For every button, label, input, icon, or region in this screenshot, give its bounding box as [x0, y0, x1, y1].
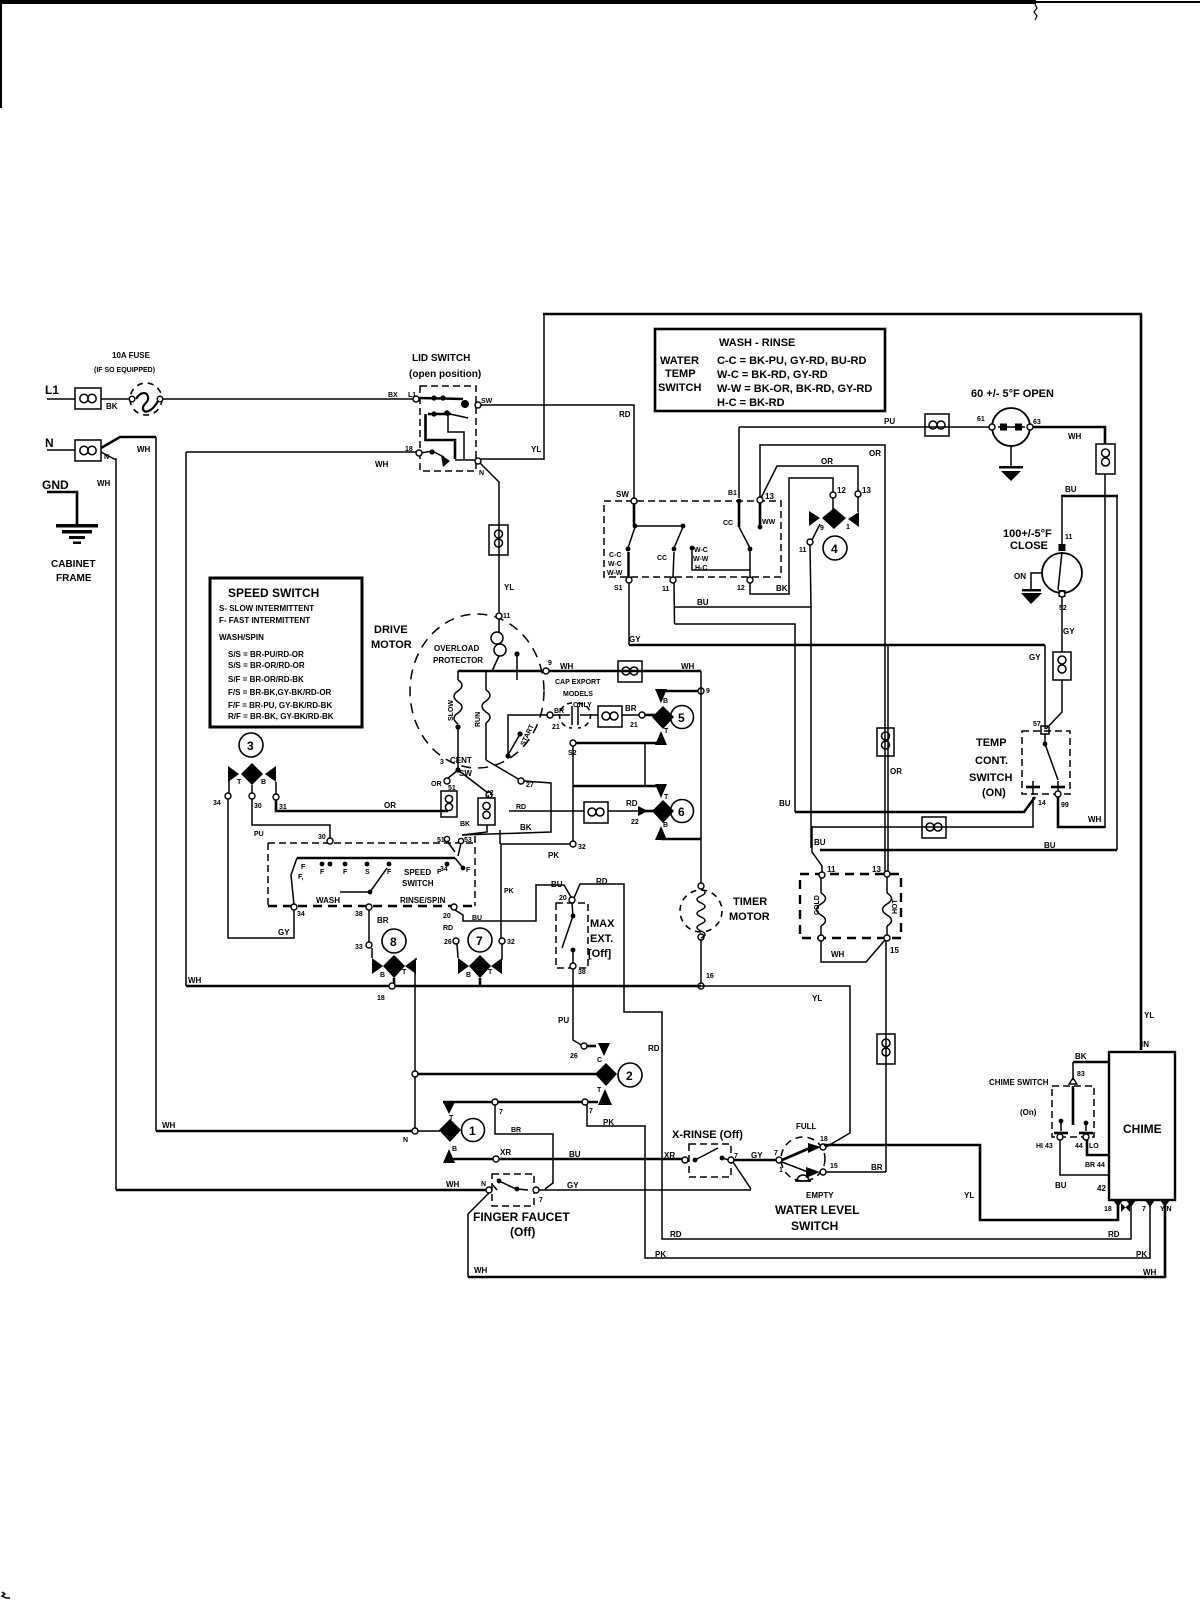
x-rinse dashed box	[689, 1144, 731, 1177]
svg-text:11: 11	[503, 613, 511, 620]
circled 5	[671, 706, 694, 729]
wire GY y1190	[539, 1189, 751, 1191]
connector vertical GY	[1053, 652, 1071, 680]
chime switch dashed box	[1052, 1086, 1094, 1137]
svg-text:TEMP: TEMP	[665, 368, 696, 380]
motor SLOW winding	[448, 671, 462, 730]
svg-text:GND: GND	[42, 478, 69, 492]
wire WH bus motor thick	[458, 670, 701, 673]
svg-text:LID SWITCH: LID SWITCH	[412, 353, 470, 364]
speed switch dashed box	[268, 836, 475, 906]
svg-text:EXT.: EXT.	[590, 933, 613, 945]
svg-text:(Off): (Off)	[510, 1225, 535, 1239]
svg-text:N: N	[45, 436, 54, 450]
wire thick to arrow	[587, 1045, 596, 1048]
finger faucet contacts	[492, 1179, 528, 1192]
wire OR2 13 diag to diamond13	[761, 466, 858, 498]
terminal WV bottom left	[818, 935, 824, 941]
wire top border	[543, 313, 1142, 316]
svg-text:OR: OR	[384, 801, 396, 810]
svg-text:GY: GY	[567, 1181, 579, 1190]
svg-text:30: 30	[318, 834, 326, 841]
circled 4	[823, 536, 847, 560]
thermostat 100F circle	[1042, 544, 1082, 597]
svg-text:61: 61	[977, 416, 985, 423]
svg-text:ON: ON	[1014, 572, 1026, 581]
connector vertical OR x885	[877, 728, 894, 756]
svg-text:RD: RD	[619, 410, 631, 419]
wire XR thick	[446, 1158, 685, 1161]
svg-text:GY: GY	[1063, 627, 1075, 636]
svg-text:SWITCH: SWITCH	[658, 382, 701, 394]
wire BR from 7 left	[495, 1105, 553, 1189]
terminal 30 speed switch	[327, 838, 333, 844]
connector vertical cent-12	[462, 795, 495, 835]
svg-text:T: T	[597, 1087, 602, 1094]
terminal 26	[453, 938, 459, 944]
svg-text:CAP EXPORT: CAP EXPORT	[555, 679, 601, 686]
svg-text:C: C	[597, 1057, 602, 1064]
contact blade left (34)	[291, 858, 297, 905]
svg-text:38: 38	[578, 969, 586, 976]
svg-text:7: 7	[774, 1150, 778, 1157]
svg-text:S/F = BR-OR/RD-BK: S/F = BR-OR/RD-BK	[228, 675, 304, 684]
terminal 18 bus	[389, 983, 395, 989]
svg-text:OVERLOAD: OVERLOAD	[434, 644, 480, 653]
wire WH WV loop	[821, 940, 885, 962]
wire N lead	[47, 449, 75, 451]
svg-text:34: 34	[440, 866, 448, 873]
svg-text:12: 12	[837, 486, 846, 495]
svg-text:27: 27	[526, 782, 534, 789]
wire GY bus thick	[629, 644, 1045, 647]
labels C-C W-C W-W stack left	[607, 552, 623, 577]
svg-text:51: 51	[437, 837, 445, 844]
svg-text:B: B	[380, 972, 385, 979]
timer motor dashed circle	[680, 883, 722, 940]
terminal 38 speed sw	[366, 904, 372, 910]
svg-text:WH: WH	[1068, 432, 1082, 441]
svg-text:COLD: COLD	[814, 895, 821, 915]
svg-text:HOT: HOT	[892, 899, 899, 915]
wire RD from cent down	[508, 810, 510, 812]
svg-text:WH: WH	[97, 479, 111, 488]
svg-text:H-C = BK-RD: H-C = BK-RD	[717, 397, 785, 409]
svg-text:13: 13	[765, 492, 774, 501]
svg-text:W-W = BK-OR, BK-RD, GY-RD: W-W = BK-OR, BK-RD, GY-RD	[717, 383, 872, 395]
wire thick y786	[573, 785, 657, 788]
circled 1	[462, 1119, 485, 1142]
contact arm	[1043, 734, 1058, 780]
svg-text:32: 32	[507, 939, 515, 946]
svg-text:XR: XR	[500, 1148, 511, 1157]
wire to diamond 5	[645, 714, 657, 717]
svg-text:BU: BU	[472, 915, 482, 922]
svg-text:3: 3	[247, 739, 254, 753]
svg-text:26: 26	[570, 1053, 578, 1060]
wire SW to RD corner	[481, 405, 634, 498]
svg-text:7: 7	[589, 1108, 593, 1115]
terminal BR diamond5	[639, 712, 645, 718]
label 24 bowtie	[1121, 1203, 1130, 1212]
svg-text:PU: PU	[254, 831, 264, 838]
svg-text:30: 30	[254, 803, 262, 810]
circled 2	[618, 1063, 642, 1087]
wire YL from lid switch N down	[480, 463, 499, 612]
svg-text:PK: PK	[504, 888, 514, 895]
svg-text:F- FAST INTERMITTENT: F- FAST INTERMITTENT	[219, 616, 310, 625]
connector inline WH cap	[618, 661, 642, 682]
wire bottom of 6 to x701	[661, 838, 701, 841]
svg-text:4: 4	[831, 542, 838, 556]
svg-text:WH: WH	[474, 1266, 488, 1275]
svg-text:7: 7	[539, 1197, 543, 1204]
svg-text:SPEED SWITCH: SPEED SWITCH	[228, 586, 319, 600]
svg-text:RINSE/SPIN: RINSE/SPIN	[400, 896, 446, 905]
terminal SW lid switch	[475, 402, 481, 408]
labels W-C W-W H-C mid stack	[690, 546, 750, 572]
svg-text:CENT: CENT	[450, 756, 472, 765]
svg-text:BX: BX	[388, 392, 398, 399]
overload protector dashed ellipse	[410, 614, 544, 768]
svg-text:LO: LO	[1089, 1143, 1099, 1150]
svg-text:CONT.: CONT.	[975, 755, 1008, 767]
svg-text:MODELS: MODELS	[563, 691, 593, 698]
terminal 11 WV	[819, 872, 825, 878]
svg-text:BU: BU	[1065, 485, 1077, 494]
svg-text:GY: GY	[1029, 653, 1041, 662]
svg-text:1: 1	[779, 1167, 783, 1174]
svg-text:9: 9	[548, 660, 552, 667]
svg-text:FRAME: FRAME	[56, 573, 92, 584]
finger faucet dashed box	[492, 1174, 534, 1206]
wire GND lead	[47, 492, 77, 524]
svg-text:OR: OR	[431, 781, 442, 788]
motor START winding	[505, 651, 536, 758]
svg-text:18: 18	[377, 995, 385, 1002]
wire BU/RD top loop	[535, 884, 537, 886]
water level contacts	[782, 1143, 821, 1178]
svg-text:1: 1	[846, 524, 850, 531]
terminal L1 lid switch	[413, 396, 419, 402]
page top edge bar	[0, 0, 1036, 4]
coil COLD	[814, 878, 826, 935]
terminal 13 water temp	[757, 497, 763, 503]
wire N to diamond1	[418, 1130, 444, 1132]
svg-text:BK: BK	[460, 821, 470, 828]
wire OR loop 13 up over to x885	[760, 445, 885, 874]
wire border drop to lid switch N	[481, 314, 544, 459]
terminal 9	[698, 688, 704, 694]
water valve dashed box	[800, 874, 901, 938]
wire PU from 30	[252, 799, 330, 838]
terminal 18 WL	[820, 1144, 826, 1150]
svg-text:SWITCH: SWITCH	[402, 879, 434, 888]
svg-text:N: N	[481, 1181, 486, 1188]
wire BU thick y812	[795, 797, 1035, 812]
svg-text:21: 21	[552, 724, 560, 731]
svg-text:T: T	[402, 969, 407, 976]
terminal 34 speed sw	[291, 904, 297, 910]
svg-text:WH: WH	[446, 1180, 460, 1189]
wire BU drop to thermostat 100F	[1061, 496, 1063, 547]
arrow up from S2 line	[655, 731, 667, 745]
wire S1 stub	[627, 552, 629, 577]
svg-text:WH: WH	[1088, 815, 1102, 824]
terminal LO	[1083, 1134, 1089, 1140]
contact blade wash	[340, 868, 387, 894]
svg-text:38: 38	[355, 911, 363, 918]
wire BU thick y850	[820, 849, 1117, 852]
connector vertical WH right	[1096, 444, 1115, 474]
svg-text:XR: XR	[664, 1151, 675, 1160]
wire RD bottom	[662, 1203, 1131, 1239]
terminal N finger faucet	[486, 1187, 492, 1193]
svg-text:RD: RD	[648, 1044, 660, 1053]
wire diamond8 T down	[414, 960, 416, 1131]
temp cont switch dashed box	[1022, 731, 1070, 794]
arrow up from XR line	[443, 1149, 455, 1163]
svg-text:34: 34	[297, 911, 305, 918]
connector vertical YL	[489, 525, 508, 555]
page bottom-left mark	[2, 1592, 10, 1598]
junction x415 y1074	[412, 1071, 418, 1077]
wire x701 vertical (9 to timer)	[700, 671, 702, 886]
svg-text:WATER LEVEL: WATER LEVEL	[775, 1203, 859, 1217]
svg-text:YL: YL	[504, 583, 514, 592]
terminal 34	[225, 793, 231, 799]
svg-text:L1: L1	[45, 383, 59, 397]
svg-text:99: 99	[1061, 802, 1069, 809]
chime switch contact bar	[1054, 1086, 1093, 1133]
wire N box to vertical riser	[101, 437, 156, 448]
wire timer to bus	[700, 940, 702, 986]
diamond 3 with arrows	[228, 763, 276, 795]
wire BR from 15	[826, 1171, 886, 1173]
terminal 11 water temp	[670, 577, 676, 583]
svg-text:F: F	[466, 867, 471, 874]
svg-text:WH: WH	[681, 662, 695, 671]
svg-text:SPEED: SPEED	[404, 868, 431, 877]
svg-text:S: S	[365, 869, 370, 876]
svg-text:B: B	[466, 972, 471, 979]
svg-text:B1: B1	[728, 490, 737, 497]
svg-text:33: 33	[355, 944, 363, 951]
svg-text:6: 6	[678, 805, 685, 819]
wire PULL from timer junction	[701, 986, 850, 1147]
svg-text:W-W: W-W	[607, 570, 623, 577]
wire 38 to 33	[368, 910, 370, 943]
svg-text:WASH - RINSE: WASH - RINSE	[719, 337, 795, 349]
terminal 38 max ext	[570, 963, 576, 969]
speed switch upper terminals 51 53	[437, 836, 472, 856]
wire BK down to 83	[1072, 1062, 1074, 1080]
wire L1 to fuse	[101, 398, 130, 400]
terminal 83	[1069, 1078, 1077, 1084]
svg-text:N: N	[479, 470, 484, 477]
svg-text:YL: YL	[1144, 1011, 1154, 1020]
fuse 10A (dashed circle with S-link)	[129, 383, 163, 415]
wire N box corner to riser x=116	[101, 452, 116, 460]
svg-text:13: 13	[872, 865, 881, 874]
svg-text:2: 2	[626, 1069, 633, 1083]
wire OR from 31	[276, 800, 448, 811]
terminal 11 motor top	[496, 613, 502, 619]
max ext contacts	[562, 903, 575, 963]
ground cabinet frame symbol	[56, 524, 98, 544]
svg-text:T: T	[664, 728, 669, 735]
svg-text:GY: GY	[751, 1151, 763, 1160]
circled 3	[239, 733, 263, 757]
wash-rinse switch dashed box	[604, 501, 781, 577]
circled 6	[671, 800, 694, 823]
wire WH riser x=116	[115, 458, 117, 1190]
svg-text:32: 32	[578, 844, 586, 851]
svg-text:11: 11	[662, 586, 670, 593]
wire WV 15 down	[885, 941, 887, 1172]
svg-text:3: 3	[440, 759, 444, 766]
svg-text:7: 7	[476, 934, 483, 948]
wire WH riser x=156	[155, 437, 157, 1131]
svg-text:100+/-5°F: 100+/-5°F	[1003, 528, 1052, 540]
diamond 1	[439, 1119, 461, 1142]
svg-text:W-C: W-C	[694, 547, 708, 554]
svg-text:R/F = BR-BK, GY-BK/RD-BK: R/F = BR-BK, GY-BK/RD-BK	[228, 712, 334, 721]
svg-text:BR: BR	[377, 916, 389, 925]
svg-text:PU: PU	[558, 1016, 569, 1025]
svg-text:16: 16	[706, 973, 714, 980]
svg-text:X-RINSE (Off): X-RINSE (Off)	[672, 1129, 743, 1141]
circled 7	[468, 928, 492, 952]
wire WH bottom bus thick	[186, 985, 701, 988]
diamond 8 with arrows	[372, 948, 416, 986]
svg-text:WH: WH	[1143, 1268, 1157, 1277]
terminal 30	[249, 793, 255, 799]
terminal XR	[493, 1156, 499, 1162]
svg-text:WH: WH	[137, 445, 151, 454]
terminal N lid switch	[475, 458, 481, 464]
svg-text:BU: BU	[1044, 841, 1056, 850]
terminal 33	[366, 942, 372, 948]
diamond 6	[652, 800, 674, 823]
svg-text:WW: WW	[762, 519, 776, 526]
svg-text:SWITCH: SWITCH	[791, 1219, 838, 1233]
svg-text:C-C: C-C	[609, 552, 621, 559]
chime bottom terminals	[1113, 1200, 1170, 1207]
svg-text:7: 7	[1142, 1206, 1146, 1213]
svg-text:BK: BK	[106, 402, 118, 411]
connector inline PU	[925, 414, 949, 436]
svg-text:26: 26	[444, 939, 452, 946]
svg-text:F/F = BR-PU, GY-BK/RD-BK: F/F = BR-PU, GY-BK/RD-BK	[228, 701, 332, 710]
svg-text:W-C: W-C	[608, 561, 622, 568]
motor RUN winding	[475, 671, 490, 760]
wire right border / YL drop	[1140, 314, 1143, 1050]
arrow down into diamond6	[655, 784, 667, 798]
svg-text:53: 53	[464, 837, 472, 844]
svg-text:14: 14	[1038, 800, 1046, 807]
diamond 7 with arrows	[457, 944, 502, 986]
svg-text:18: 18	[820, 1136, 828, 1143]
wire x500 BK drop to 32	[499, 830, 501, 844]
svg-text:44: 44	[1075, 1143, 1083, 1150]
svg-text:Y N: Y N	[1160, 1206, 1172, 1213]
arrow down left end y1102	[443, 1102, 455, 1114]
svg-text:WH: WH	[188, 976, 202, 985]
svg-text:GY: GY	[629, 635, 641, 644]
wire thick y1102	[443, 1101, 598, 1104]
wire WH bottom bus	[468, 1203, 1165, 1277]
svg-text:SLOW: SLOW	[448, 700, 455, 721]
svg-text:T: T	[664, 794, 669, 801]
svg-text:F: F	[301, 864, 306, 871]
svg-text:(IF SO EQUIPPED): (IF SO EQUIPPED)	[94, 367, 155, 374]
wire 13 contact stub	[758, 503, 763, 529]
svg-text:C-C = BK-PU, GY-RD, BU-RD: C-C = BK-PU, GY-RD, BU-RD	[717, 355, 866, 367]
svg-text:RD: RD	[670, 1230, 682, 1239]
svg-text:T: T	[237, 779, 242, 786]
svg-text:W-W: W-W	[693, 556, 709, 563]
svg-text:B: B	[452, 1146, 457, 1153]
arrow down into diamond5	[655, 689, 667, 703]
wire left T-bar down to y827	[812, 797, 1033, 872]
connector vertical WV15	[877, 1034, 895, 1064]
speed switch contact dots and labels	[298, 862, 449, 881]
overload coil	[491, 619, 506, 671]
svg-text:MOTOR: MOTOR	[729, 911, 770, 923]
svg-text:WH: WH	[375, 460, 389, 469]
svg-text:OR: OR	[890, 767, 902, 776]
wire BK loop 12 to diamond12	[750, 478, 833, 594]
terminal 13 WV	[884, 871, 890, 877]
svg-text:PK: PK	[603, 1118, 614, 1127]
svg-text:TEMP: TEMP	[976, 737, 1007, 749]
bell symbol	[795, 1175, 811, 1181]
svg-text:FINGER FAUCET: FINGER FAUCET	[473, 1210, 570, 1224]
diamond 2	[595, 1063, 617, 1086]
terminal RD arrow	[638, 806, 648, 816]
terminal 13 (diamond4)	[855, 491, 861, 497]
svg-text:BR: BR	[871, 1163, 883, 1172]
terminal 7 x-rinse	[728, 1157, 734, 1163]
wire S2/PK from x573 left to x501 down	[501, 844, 573, 938]
terminal S2	[570, 740, 576, 746]
svg-text:HI 43: HI 43	[1036, 1143, 1053, 1150]
svg-text:8: 8	[390, 935, 397, 949]
cent switch contacts	[444, 727, 524, 798]
terminal 31	[273, 794, 279, 800]
wire 11 down to BU	[810, 545, 811, 607]
thermostat 60F circle	[989, 408, 1033, 446]
svg-text:PK: PK	[1136, 1250, 1147, 1259]
coil HOT	[883, 877, 900, 935]
svg-text:F/S = BR-BK,GY-BK/RD-OR: F/S = BR-BK,GY-BK/RD-OR	[228, 688, 332, 697]
terminal 12 (diamond4)	[830, 492, 836, 498]
svg-text:WATER: WATER	[660, 355, 699, 367]
ground under thermostat 60F	[999, 446, 1023, 481]
svg-text:F,: F,	[298, 874, 304, 881]
wire fuse to lid switch L1	[162, 398, 413, 400]
diamond 5	[652, 706, 674, 729]
svg-text:BU: BU	[779, 799, 791, 808]
svg-text:12: 12	[737, 585, 745, 592]
terminal 18 lid switch	[416, 450, 422, 456]
svg-text:EMPTY: EMPTY	[806, 1191, 834, 1200]
svg-text:F: F	[387, 869, 392, 876]
wire BU right drop to y850	[1116, 496, 1118, 850]
wire cap line from start	[508, 715, 550, 758]
svg-text:9: 9	[706, 688, 710, 695]
